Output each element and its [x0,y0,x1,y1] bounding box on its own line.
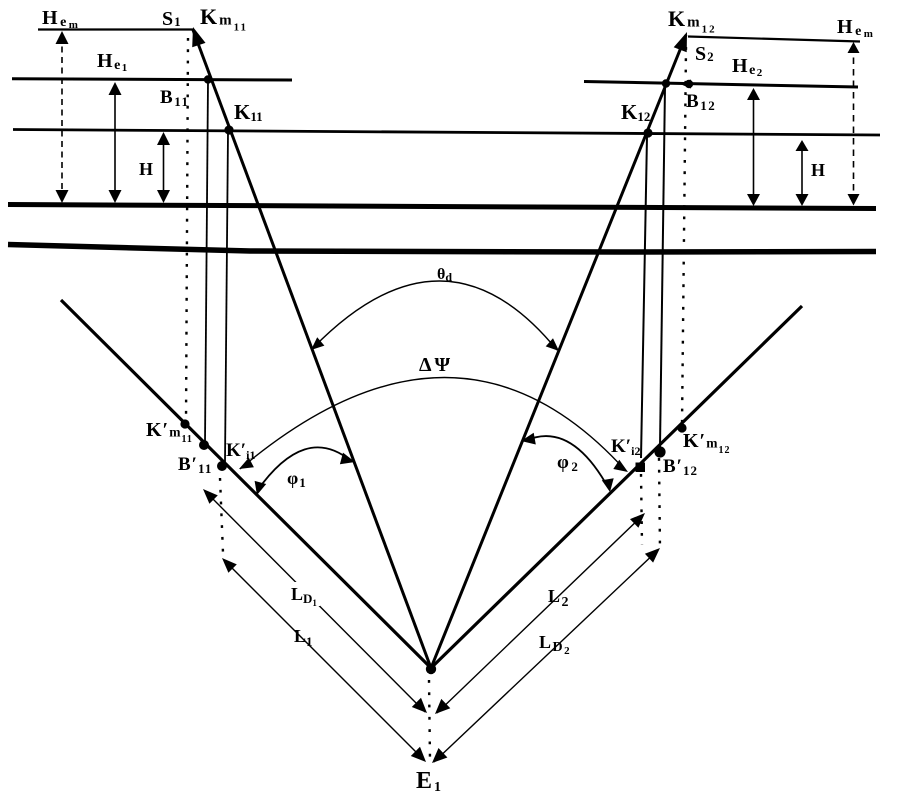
wire: dotted vertical from S2 down to K'm12 [682,47,686,424]
node at right line1 crossing [662,79,670,87]
svg-text:LD2: LD2 [539,632,571,657]
svg-text:S1: S1 [162,8,182,30]
dimension L2 diagonal [437,515,643,713]
arrowhead phi2 bottom end [602,478,614,492]
svg-text:Km11: Km11 [200,4,248,34]
dimension He1: vertical with arrows [114,87,116,198]
wire: dotted vertical from S1 down to K'm11 [186,38,188,422]
svg-text:L2: L2 [548,586,570,610]
arc: phi2 angle arc [525,436,609,489]
svg-text:B11: B11 [160,87,189,109]
svg-text:K′m12: K′m12 [683,430,730,456]
svg-text:Hem: Hem [837,16,875,40]
svg-text:S2: S2 [695,43,715,65]
wire: dotted connector below K'i1 to L1 arrow [220,478,223,553]
wire: upper horizontal line right segment [584,82,858,88]
svg-text:K′i1: K′i1 [226,440,255,462]
node K'm12 [677,423,686,432]
dimension H left: vertical with arrows [163,137,165,199]
dimension LD1 diagonal [205,491,425,712]
svg-text:φ2: φ2 [557,452,580,474]
arrowhead phi1 bottom end [255,481,267,495]
svg-text:K11: K11 [234,100,263,124]
arc: delta-psi angle arc [240,377,626,471]
dimension He2: vertical with arrows [753,93,755,201]
node K'i2 square [636,463,646,473]
node B'11 [199,440,209,450]
svg-text:Hem: Hem [42,7,80,31]
dimension L1 diagonal [224,560,424,760]
svg-text:ΔΨ: ΔΨ [419,354,453,376]
label LD1 with mask [286,582,320,606]
arc: phi1 angle arc [257,447,351,491]
node B12 with left arrow tip [685,80,693,88]
arrowhead theta-d right end [546,338,559,351]
wire: left slanted ray S1 to apex [193,30,431,668]
dimension LD2 diagonal [434,550,658,762]
node B'12 [654,446,665,457]
wire: thick lower surface line [8,245,876,253]
arrowhead: apex of right ray at Km12 [674,32,687,52]
node B11 [204,75,212,83]
wire: vertical from B11 down to B'11 [205,81,208,443]
wire: right slanted ray S2/Km12 to apex [431,35,686,668]
wire: dotted connector below K'i2 [641,474,642,545]
node K11 [224,125,233,134]
node K'i1 [217,461,227,471]
wire: vertical from K11 down to K'i1 [225,132,228,462]
wire: upper horizontal line left segment [12,79,292,80]
svg-text:θd: θd [437,266,452,284]
svg-text:E1: E1 [416,768,443,795]
node apex E [426,664,436,674]
svg-text:H: H [811,160,825,180]
wire: vertical from K12 down to K'i2 [641,136,647,458]
svg-text:Km12: Km12 [668,6,717,36]
svg-text:K′i2: K′i2 [611,436,640,458]
arrowhead delta-psi left end [239,458,254,469]
node K12 [643,128,652,137]
wire: right inclined ground line [431,306,802,668]
wire: second horizontal line full width [13,130,880,136]
arrowhead delta-psi right end [613,460,628,472]
node K'm11 [180,419,189,428]
dimension Hem right: dashed vertical with arrows [853,46,855,200]
arrowhead phi2 left end [521,433,536,445]
wire: vertical from line1 dot down to B'12 [660,86,665,447]
wire: dotted connector below B'12 [659,458,660,550]
dimension H right: vertical with arrows [801,144,803,201]
svg-text:B′12: B′12 [663,456,698,478]
svg-text:He2: He2 [732,55,764,79]
svg-text:He1: He1 [97,50,129,74]
svg-text:B′11: B′11 [178,454,212,476]
wire: top-right horizon line S2 to Hem2 [688,37,860,42]
svg-text:B12: B12 [686,91,716,113]
wire: dotted vertical below apex to E1 [429,680,430,760]
svg-text:K12: K12 [621,100,650,124]
svg-text:L1: L1 [294,626,313,649]
arrowhead theta-d left end [311,337,324,350]
wire: thick ground surface line [8,205,876,209]
arrowhead phi1 right end [340,453,355,465]
dimension Hem left: dashed vertical with arrows [61,36,63,198]
svg-text:φ1: φ1 [287,468,307,490]
arrowhead: apex of left ray at S1 [192,27,205,47]
wire: left inclined ground line [61,300,431,668]
arc: theta-d angle arc between rays [313,281,557,350]
wire: top-left horizon line under Hem1 to S1 [38,28,193,30]
svg-text:H: H [139,159,153,179]
